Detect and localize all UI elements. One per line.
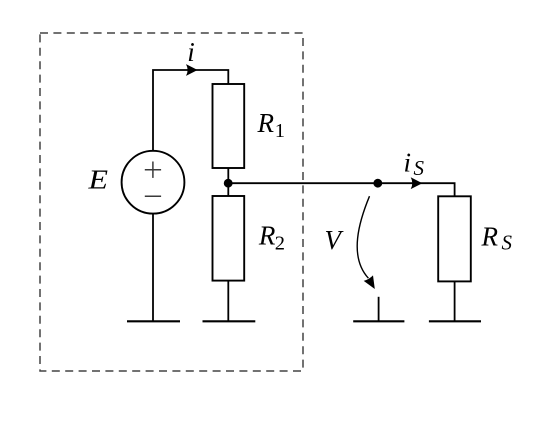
svg-text:R: R bbox=[481, 221, 499, 251]
svg-text:E: E bbox=[87, 165, 108, 195]
svg-text:R: R bbox=[258, 221, 276, 251]
svg-text:R: R bbox=[257, 108, 275, 138]
svg-text:i: i bbox=[187, 37, 195, 67]
svg-text:1: 1 bbox=[275, 120, 285, 142]
svg-text:S: S bbox=[414, 156, 425, 180]
svg-text:i: i bbox=[404, 147, 412, 177]
svg-text:S: S bbox=[502, 231, 513, 255]
svg-text:2: 2 bbox=[275, 232, 285, 254]
